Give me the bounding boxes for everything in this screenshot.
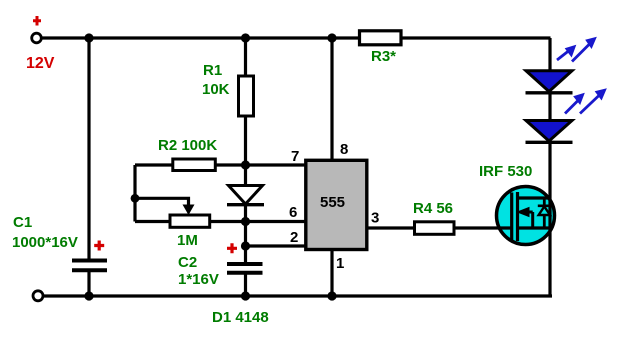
mosfet body diode line bbox=[543, 198, 546, 228]
svg-text:1000*16V: 1000*16V bbox=[12, 234, 78, 251]
svg-text:2: 2 bbox=[290, 229, 298, 246]
plus C1 bbox=[94, 241, 104, 251]
svg-text:6: 6 bbox=[289, 204, 297, 221]
junction node pin2 bbox=[241, 241, 250, 250]
resistor R1 bbox=[239, 76, 254, 116]
resistor R2 bbox=[173, 159, 216, 171]
resistor R3 bbox=[360, 31, 402, 45]
plus top bbox=[33, 16, 41, 26]
wire pin1 column bbox=[330, 251, 333, 296]
capacitor C2 bbox=[227, 264, 263, 273]
svg-text:R4 56: R4 56 bbox=[413, 200, 453, 217]
wire R2 row / pin7 row bbox=[135, 163, 305, 166]
wire left column bbox=[87, 38, 90, 259]
LED D2 light arrows bbox=[557, 38, 596, 62]
resistor R4 bbox=[415, 222, 455, 235]
svg-text:R2 100K: R2 100K bbox=[158, 137, 217, 154]
mosfet arrow tail bbox=[529, 212, 533, 228]
op-amp U1 555 timer bbox=[306, 160, 367, 249]
junction node top-R1 bbox=[241, 33, 250, 42]
junction node top-pin8 bbox=[327, 33, 336, 42]
svg-text:8: 8 bbox=[340, 141, 348, 158]
capacitor C1 bbox=[72, 261, 107, 271]
wire pin2 row bbox=[246, 244, 305, 247]
mosfet source stub bbox=[518, 226, 551, 229]
diode D1 bbox=[227, 186, 264, 205]
junction node bottom-pin1 bbox=[327, 291, 336, 300]
junction node wiper bbox=[131, 194, 140, 203]
junction node pin7-R1 bbox=[241, 160, 250, 169]
wire left column below C1 bbox=[87, 272, 90, 296]
wire pot row / pin6 row bbox=[135, 220, 305, 223]
svg-text:R3*: R3* bbox=[371, 48, 396, 65]
transistor Q1 IRF530 body bbox=[497, 187, 555, 245]
svg-text:10K: 10K bbox=[202, 81, 230, 98]
svg-text:R1: R1 bbox=[203, 62, 222, 79]
wire pin8 column bbox=[330, 38, 333, 159]
junction node bottom-C2 bbox=[241, 291, 250, 300]
svg-text:7: 7 bbox=[291, 148, 299, 165]
wire R1/D1 column upper bbox=[244, 38, 247, 186]
svg-text:IRF 530: IRF 530 bbox=[479, 163, 532, 180]
junction node top-C1 bbox=[84, 33, 93, 42]
svg-text:C1: C1 bbox=[13, 214, 32, 231]
svg-text:1M: 1M bbox=[177, 232, 198, 249]
mosfet gate plate bbox=[510, 193, 513, 241]
wire top rail bbox=[42, 36, 551, 39]
terminal top-left bbox=[32, 33, 42, 43]
wire pin3 row to gate bbox=[366, 226, 513, 229]
svg-text:C2: C2 bbox=[178, 254, 197, 271]
wire right column (drain/source) bbox=[548, 38, 551, 296]
potentiometer 1M bbox=[170, 215, 210, 227]
terminal bottom-left bbox=[33, 291, 43, 301]
LED D3 light arrows bbox=[565, 89, 606, 114]
svg-text:555: 555 bbox=[320, 194, 345, 211]
mosfet channel bbox=[516, 192, 519, 241]
svg-text:3: 3 bbox=[371, 210, 379, 227]
mosfet body diode bbox=[538, 206, 551, 215]
LED D2 bbox=[526, 71, 573, 93]
svg-text:12V: 12V bbox=[26, 55, 55, 72]
wire left sub column bbox=[133, 165, 136, 222]
wiper arrowhead bbox=[183, 205, 195, 216]
svg-text:1: 1 bbox=[336, 255, 344, 272]
wire wiper tap bbox=[135, 198, 189, 205]
wire below C2 bbox=[244, 274, 247, 296]
wire D1 to C2 column bbox=[244, 204, 247, 263]
LED D3 bbox=[526, 121, 573, 143]
junction node pin6-pot bbox=[241, 217, 250, 226]
wire bottom rail bbox=[43, 294, 552, 297]
mosfet drain stub bbox=[518, 196, 551, 199]
plus C2 bbox=[227, 243, 237, 253]
junction node bottom-C1 bbox=[84, 291, 93, 300]
svg-text:D1 4148: D1 4148 bbox=[212, 309, 269, 326]
mosfet arrow bbox=[516, 207, 530, 217]
svg-text:1*16V: 1*16V bbox=[178, 271, 219, 288]
